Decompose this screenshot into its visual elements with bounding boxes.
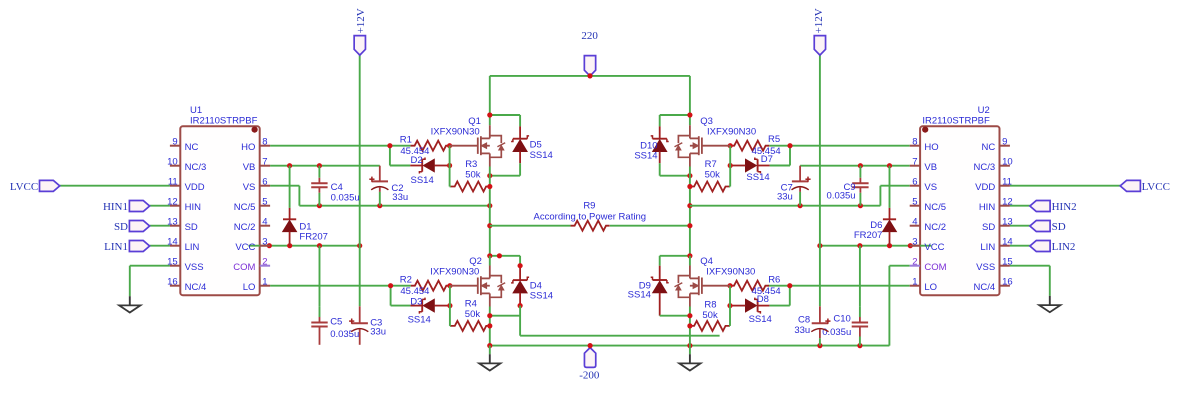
ground at Q4 source / bottom rail right <box>679 346 700 371</box>
capacitor C7 33u (bootstrap U2, polarized) <box>792 166 811 206</box>
wire U2 VDD (pin 11) to LVCC port <box>1010 185 1120 187</box>
svg-text:33u: 33u <box>794 325 810 336</box>
diode D2 labels <box>411 155 434 186</box>
svg-text:Q3: Q3 <box>700 116 713 127</box>
svg-text:33u: 33u <box>777 191 793 202</box>
wire Q2 source column to bottom rail <box>487 307 492 346</box>
svg-text:D7: D7 <box>761 154 773 165</box>
svg-text:IXFX90N30: IXFX90N30 <box>431 126 480 137</box>
svg-text:LIN: LIN <box>980 242 995 253</box>
svg-text:SS14: SS14 <box>628 290 651 301</box>
port HIN2 <box>1030 201 1077 213</box>
svg-text:SD: SD <box>114 221 128 233</box>
U1 pin 7 (VB) <box>243 157 270 173</box>
capacitor C10 0.035u <box>852 306 868 345</box>
U2 pin 14 (LIN) <box>980 237 1012 253</box>
svg-text:7: 7 <box>262 157 267 168</box>
resistor R8 50k (gate-source Q4) <box>690 321 729 331</box>
svg-text:6: 6 <box>262 177 267 188</box>
svg-text:-200: -200 <box>579 369 600 381</box>
svg-text:IR2110STRPBF: IR2110STRPBF <box>922 116 990 127</box>
svg-text:16: 16 <box>1002 277 1013 288</box>
svg-text:U1: U1 <box>190 105 202 116</box>
svg-text:50k: 50k <box>705 170 721 181</box>
svg-text:R4: R4 <box>465 298 477 309</box>
svg-text:4: 4 <box>262 217 267 228</box>
resistor R2 labels <box>400 275 430 297</box>
svg-text:11: 11 <box>1002 177 1012 188</box>
svg-text:1: 1 <box>912 277 917 288</box>
U2 pin 9 (NC) <box>981 137 1009 153</box>
svg-text:1: 1 <box>262 277 267 288</box>
capacitor C9 0.035u (bootstrap U2) <box>852 166 868 206</box>
wire U1 LO (pin 1) to R2/D3 node <box>270 283 411 306</box>
port LIN2 <box>1030 241 1076 253</box>
svg-text:R5: R5 <box>768 134 780 145</box>
svg-text:13: 13 <box>167 217 178 228</box>
diode D3 SS14 (anti-parallel with R2) <box>410 298 452 314</box>
wire U2 pin 12 to HIN2 port <box>1010 205 1030 207</box>
svg-text:50k: 50k <box>465 309 481 320</box>
U2 pin 12 (HIN) <box>979 197 1013 213</box>
transistor Q2 labels <box>430 256 482 278</box>
svg-text:VDD: VDD <box>975 182 995 193</box>
resistor R7 labels <box>705 159 721 181</box>
svg-text:11: 11 <box>168 177 178 188</box>
svg-text:Q1: Q1 <box>468 116 481 127</box>
capacitor C5 0.035u <box>311 306 327 345</box>
svg-text:33u: 33u <box>392 192 408 203</box>
svg-text:VCC: VCC <box>924 242 944 253</box>
svg-text:HIN1: HIN1 <box>103 201 128 213</box>
svg-text:NC/5: NC/5 <box>234 202 256 213</box>
svg-text:HIN: HIN <box>979 202 996 213</box>
U2 pin 1 (LO) <box>910 277 937 293</box>
svg-text:SS14: SS14 <box>411 175 434 186</box>
svg-text:0.035u: 0.035u <box>330 329 359 340</box>
U1 pin 9 (NC) <box>170 137 199 153</box>
diode D10 SS14 (freewheel Q3) <box>651 112 693 178</box>
wire LVCC to U1 VDD (pin 11) <box>60 185 170 187</box>
svg-text:R9: R9 <box>583 201 595 212</box>
svg-text:NC/4: NC/4 <box>185 282 207 293</box>
svg-text:D4: D4 <box>530 280 542 291</box>
svg-text:SS14: SS14 <box>530 291 553 302</box>
svg-text:HIN: HIN <box>185 202 202 213</box>
wire SD to U1 pin 13 <box>150 225 170 227</box>
wire +12V right down to U2 VCC rail and C8 <box>819 55 821 306</box>
svg-text:4: 4 <box>912 217 917 228</box>
svg-text:LO: LO <box>924 282 937 293</box>
svg-text:NC/2: NC/2 <box>234 222 256 233</box>
U1 pin 14 (LIN) <box>167 237 199 253</box>
wire Q3 gate node column <box>729 146 730 187</box>
svg-text:NC/3: NC/3 <box>185 162 207 173</box>
svg-text:220: 220 <box>581 30 598 42</box>
svg-text:COM: COM <box>233 262 255 273</box>
svg-text:VB: VB <box>924 162 937 173</box>
wire U2 VCC (pin 3) rail <box>817 243 931 248</box>
wire bottom rail (-200) and U2 COM return <box>487 266 910 349</box>
U1 pin 12 (HIN) <box>167 197 201 213</box>
capacitor C3 labels <box>370 317 386 337</box>
svg-text:R8: R8 <box>704 299 716 310</box>
svg-text:9: 9 <box>172 137 177 148</box>
resistor R1 45.454 (gate resistor Q1) <box>411 141 453 151</box>
resistor R3 labels <box>465 159 481 181</box>
svg-text:C10: C10 <box>833 314 850 325</box>
svg-text:R1: R1 <box>400 135 412 146</box>
wire Q2 gate node column <box>450 286 451 326</box>
svg-text:IR2110STRPBF: IR2110STRPBF <box>190 116 258 127</box>
resistor R2 45.454 (gate resistor Q2) <box>411 281 453 291</box>
svg-text:SS14: SS14 <box>749 314 772 325</box>
U1 pin 2 (COM) <box>233 257 270 273</box>
capacitor C2 labels <box>391 183 408 203</box>
diode D8 SS14 (anti-parallel with R6) <box>727 298 769 314</box>
svg-text:10: 10 <box>167 157 178 168</box>
svg-text:LIN1: LIN1 <box>104 241 128 253</box>
wire U1 VSS (pin 15) to ground <box>130 266 170 297</box>
diode D3 labels <box>408 296 431 325</box>
wire +12V left down to VCC rail and C3 <box>359 55 361 306</box>
svg-text:LO: LO <box>243 282 256 293</box>
port SD (left) <box>114 221 150 233</box>
svg-text:SS14: SS14 <box>634 151 657 162</box>
resistor R5 labels <box>752 134 781 157</box>
resistor R9 labels <box>534 201 646 223</box>
svg-text:VCC: VCC <box>235 242 255 253</box>
diode D7 labels <box>746 154 773 183</box>
svg-text:0.035u: 0.035u <box>827 191 856 202</box>
svg-text:IXFX90N30: IXFX90N30 <box>430 266 479 277</box>
svg-text:50k: 50k <box>702 310 718 321</box>
diode D6 labels <box>854 220 883 241</box>
svg-text:14: 14 <box>167 237 178 248</box>
wire HIN1 to U1 pin 12 <box>150 205 170 207</box>
diode D5 SS14 (freewheel Q1) <box>487 112 529 178</box>
svg-text:0.035u: 0.035u <box>822 327 851 338</box>
svg-text:Q2: Q2 <box>469 256 482 267</box>
svg-text:Q4: Q4 <box>700 256 713 267</box>
wire D4 anode to lower horizontal run <box>490 306 720 336</box>
resistor R1 labels <box>400 135 430 157</box>
svg-text:HO: HO <box>241 142 255 153</box>
wire U2 HO (pin 8) to R5/D7 node <box>769 143 910 165</box>
port LIN1 <box>104 241 149 253</box>
svg-text:R3: R3 <box>465 159 477 170</box>
transistor Q3 IXFX90N30 <box>675 125 731 166</box>
wire U1 VCC (pin 3) rail <box>248 243 362 248</box>
svg-text:VS: VS <box>243 182 256 193</box>
diode D10 labels <box>634 140 657 161</box>
resistor R6 labels <box>752 275 781 297</box>
svg-text:10: 10 <box>1002 157 1013 168</box>
resistor R5 45.454 (gate resistor Q3) <box>728 141 770 151</box>
U1 pin 10 (NC/3) <box>167 157 206 173</box>
svg-text:+12V: +12V <box>355 8 367 33</box>
U2 pin 3 (VCC) <box>910 237 945 253</box>
capacitor C7 labels <box>777 182 793 202</box>
diode D9 SS14 (freewheel Q4) <box>651 253 693 316</box>
U2 pin 4 (NC/2) <box>910 217 946 233</box>
svg-text:50k: 50k <box>465 170 481 181</box>
power port +12V left <box>354 8 367 55</box>
U1 pin 11 (VDD) <box>168 177 205 193</box>
svg-text:SD: SD <box>982 222 995 233</box>
wire Q1 source / switch node column <box>487 167 492 256</box>
capacitor C5 labels <box>330 317 359 340</box>
resistor R6 45.454 (gate resistor Q4) <box>727 281 769 291</box>
transistor Q1 labels <box>431 116 481 138</box>
port LVCC (right) <box>1120 180 1170 193</box>
wire U1 VB (pin 7) rail to C2 <box>270 163 380 168</box>
svg-text:SS14: SS14 <box>530 150 553 161</box>
U2 pin 7 (VB) <box>910 157 937 173</box>
IC U1 reference label <box>190 105 258 127</box>
port HIN1 <box>103 201 150 213</box>
capacitor C10 labels <box>822 314 851 338</box>
svg-text:8: 8 <box>262 137 267 148</box>
wire U2 VS (pin 6) to right switch node <box>690 186 910 209</box>
U1 pin 6 (VS) <box>243 177 270 193</box>
svg-text:COM: COM <box>924 262 946 273</box>
svg-text:VDD: VDD <box>185 182 205 193</box>
wire U2 pin 13 to SD port <box>1010 225 1030 227</box>
U1 pin 4 (NC/2) <box>234 217 270 233</box>
svg-text:9: 9 <box>1002 137 1007 148</box>
svg-text:15: 15 <box>167 257 178 268</box>
transistor Q3 labels <box>700 116 756 138</box>
transistor Q1 IXFX90N30 <box>450 125 506 166</box>
U1 pin 3 (VCC) <box>235 237 270 253</box>
wire Q4 gate node column <box>728 286 731 326</box>
svg-text:2: 2 <box>262 257 267 268</box>
wire LIN1 to U1 pin 14 <box>150 245 170 247</box>
svg-text:5: 5 <box>912 197 917 208</box>
svg-text:+12V: +12V <box>813 8 825 33</box>
U1 pin 15 (VSS) <box>167 257 203 273</box>
transistor Q2 IXFX90N30 <box>450 265 505 306</box>
U1 pin 16 (NC/4) <box>167 277 206 293</box>
resistor R7 50k (gate-source Q3) <box>690 182 729 192</box>
capacitor C2 33u (bootstrap, polarized) <box>369 166 388 206</box>
svg-text:VSS: VSS <box>976 262 995 273</box>
U2 pin 13 (SD) <box>982 217 1013 233</box>
diode D1 FR207 (bootstrap, VB to VCC) <box>283 166 297 246</box>
IC U2 reference label <box>922 105 990 127</box>
svg-text:3: 3 <box>912 237 917 248</box>
resistor R4 50k (gate-source Q2) <box>451 321 490 331</box>
svg-text:NC/2: NC/2 <box>924 222 946 233</box>
resistor R8 labels <box>702 299 718 320</box>
svg-text:45.454: 45.454 <box>400 286 429 297</box>
svg-text:LVCC: LVCC <box>1142 181 1170 193</box>
svg-text:IXFX90N30: IXFX90N30 <box>707 126 756 137</box>
svg-text:SS14: SS14 <box>408 315 431 326</box>
port LVCC (left) <box>10 180 60 193</box>
svg-text:14: 14 <box>1002 237 1013 248</box>
svg-text:5: 5 <box>262 197 267 208</box>
svg-text:NC/5: NC/5 <box>924 202 946 213</box>
diode D1 labels <box>299 221 328 242</box>
wire Q3 source / right switch node column <box>687 167 692 256</box>
wire Q2 drain stub <box>489 256 491 266</box>
IC U2 IR2110STRPBF body <box>920 126 999 295</box>
svg-text:SD: SD <box>185 222 198 233</box>
svg-text:3: 3 <box>262 237 267 248</box>
svg-text:According to Power Rating: According to Power Rating <box>534 211 646 222</box>
svg-text:U2: U2 <box>978 105 990 116</box>
svg-text:NC/4: NC/4 <box>974 282 996 293</box>
svg-text:LIN: LIN <box>185 242 200 253</box>
svg-text:SS14: SS14 <box>746 172 769 183</box>
svg-text:12: 12 <box>167 197 178 208</box>
resistor R3 50k (gate-source Q1) <box>451 182 490 192</box>
U2 pin 6 (VS) <box>910 177 937 193</box>
wire C5 column (VCC to C5) <box>319 246 321 307</box>
svg-text:15: 15 <box>1002 257 1013 268</box>
svg-text:NC: NC <box>981 142 995 153</box>
power port +12V right <box>813 8 826 55</box>
svg-text:FR207: FR207 <box>854 230 883 241</box>
capacitor C9 labels <box>827 182 856 202</box>
svg-text:FR207: FR207 <box>299 231 328 242</box>
U2 pin 5 (NC/5) <box>910 197 946 213</box>
capacitor C3 33u (polarized) <box>349 306 368 345</box>
wire U2 VB (pin 7) rail to C7 <box>800 163 910 168</box>
svg-text:R6: R6 <box>768 275 780 286</box>
svg-text:33u: 33u <box>370 327 386 338</box>
svg-text:D5: D5 <box>530 140 542 151</box>
capacitor C8 33u (polarized) <box>811 306 830 345</box>
diode D7 SS14 (anti-parallel with R5) <box>728 158 770 174</box>
diode D5 labels <box>530 140 553 161</box>
wire U2 VSS (pin 15) to ground <box>1010 266 1050 296</box>
wire U1 HO (pin 8) to R1/D2 node <box>270 143 411 165</box>
svg-text:R7: R7 <box>705 159 717 170</box>
diode D4 SS14 (freewheel Q2) <box>487 253 529 308</box>
wire Q1 gate node column <box>450 146 451 187</box>
wire Q4 drain stub <box>689 256 691 266</box>
svg-text:0.035u: 0.035u <box>331 192 360 203</box>
diode D9 labels <box>628 280 651 300</box>
wire U2 LO (pin 1) to R6/D8 node <box>769 283 910 306</box>
svg-text:HIN2: HIN2 <box>1052 201 1077 213</box>
svg-text:8: 8 <box>912 137 917 148</box>
U2 pin 10 (NC/3) <box>974 157 1013 173</box>
svg-text:R2: R2 <box>400 275 412 286</box>
ground at U2 VSS <box>1039 296 1060 312</box>
transistor Q4 labels <box>700 256 755 278</box>
power port -200 (bottom) <box>579 348 600 382</box>
U1 pin 13 (SD) <box>167 217 198 233</box>
svg-text:6: 6 <box>912 177 917 188</box>
U2 pin 16 (NC/4) <box>974 277 1013 293</box>
IC U1 IR2110STRPBF body <box>180 126 259 295</box>
wire Q4 source column to bottom rail <box>687 307 692 346</box>
port SD (right) <box>1030 221 1066 233</box>
svg-text:NC/3: NC/3 <box>974 162 996 173</box>
ground at Q2 source / bottom rail left <box>479 346 500 371</box>
diode D6 FR207 (bootstrap U2) <box>883 166 897 246</box>
diode D2 SS14 (anti-parallel with R1) <box>410 158 452 174</box>
capacitor C4 0.035u (bootstrap) <box>311 166 327 206</box>
svg-text:NC: NC <box>185 142 199 153</box>
U1 pin 1 (LO) <box>243 277 270 293</box>
svg-text:C5: C5 <box>330 317 342 328</box>
U2 pin 15 (VSS) <box>976 257 1012 273</box>
svg-text:D3: D3 <box>410 296 422 307</box>
power port 220 (top) <box>581 30 598 76</box>
svg-text:12: 12 <box>1002 197 1013 208</box>
wire C10 column (VCC to C10) <box>859 246 861 307</box>
wire U1 VS (pin 6) to switch node <box>270 186 492 209</box>
capacitor C8 labels <box>794 315 810 336</box>
svg-text:7: 7 <box>912 157 917 168</box>
svg-text:HO: HO <box>924 142 938 153</box>
transistor Q4 IXFX90N30 <box>675 265 731 306</box>
U2 pin 2 (COM) <box>910 257 947 273</box>
U1 pin 8 (HO) <box>241 137 270 153</box>
svg-text:VSS: VSS <box>185 262 204 273</box>
resistor R9 (load, According to Power Rating) <box>490 221 690 231</box>
svg-text:IXFX90N30: IXFX90N30 <box>706 266 755 277</box>
ground at U1 VSS <box>119 296 140 312</box>
svg-text:VB: VB <box>243 162 256 173</box>
wire top rail (220 supply) to Q1/Q3 drains <box>490 73 690 125</box>
svg-text:VS: VS <box>924 182 937 193</box>
diode D4 labels <box>530 280 553 301</box>
svg-text:SD: SD <box>1052 221 1066 233</box>
wire U2 pin 14 to LIN2 port <box>1010 245 1030 247</box>
svg-text:16: 16 <box>167 277 178 288</box>
svg-text:D2: D2 <box>411 155 423 166</box>
svg-text:2: 2 <box>912 257 917 268</box>
diode D8 labels <box>749 294 772 325</box>
U1 pin 5 (NC/5) <box>234 197 270 213</box>
svg-text:D8: D8 <box>757 294 769 305</box>
capacitor C4 labels <box>331 182 360 203</box>
resistor R4 labels <box>465 298 481 319</box>
svg-text:13: 13 <box>1002 217 1013 228</box>
U2 pin 11 (VDD) <box>975 177 1012 193</box>
svg-text:LIN2: LIN2 <box>1052 241 1076 253</box>
svg-text:LVCC: LVCC <box>10 181 38 193</box>
U2 pin 8 (HO) <box>910 137 939 153</box>
